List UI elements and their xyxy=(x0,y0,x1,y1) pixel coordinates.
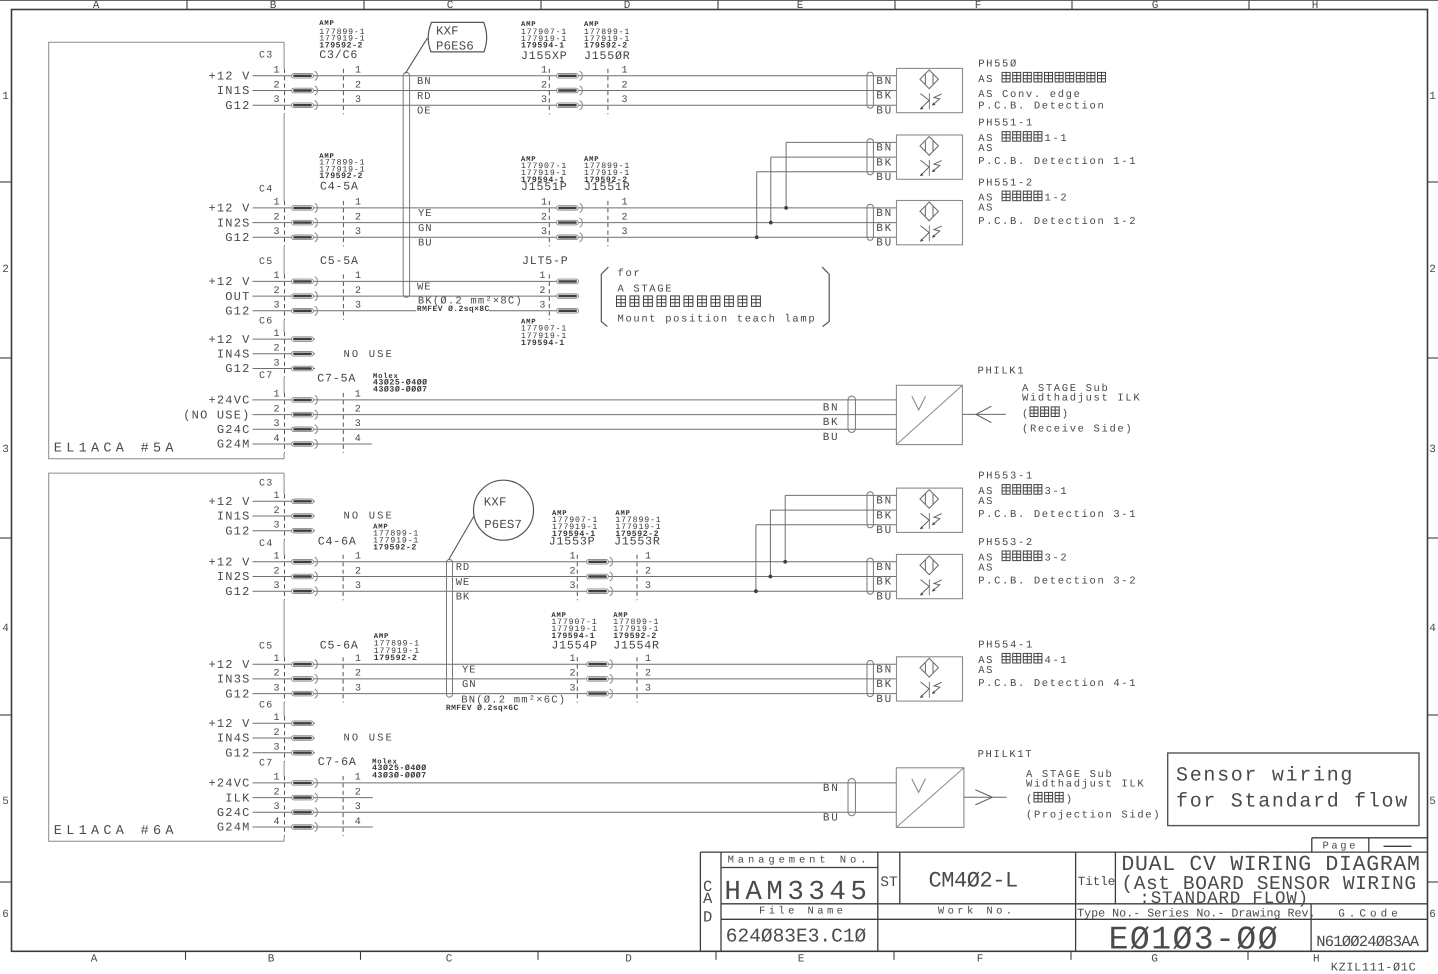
svg-text:179592-2: 179592-2 xyxy=(374,654,418,663)
C3 connector boundary xyxy=(284,494,286,539)
wire colour GN xyxy=(462,679,476,691)
svg-text:J1554R: J1554R xyxy=(613,639,660,652)
svg-text:C4: C4 xyxy=(259,539,273,550)
svg-text:3: 3 xyxy=(569,683,575,694)
svg-text:+12 V: +12 V xyxy=(208,717,250,731)
svg-text:4: 4 xyxy=(2,623,9,635)
C5 pin 2 contact xyxy=(292,292,318,301)
svg-text:3: 3 xyxy=(2,444,9,456)
svg-text:1: 1 xyxy=(273,329,279,340)
svg-text:J155ØR: J155ØR xyxy=(584,50,631,63)
mating contact pin 1 xyxy=(587,660,613,669)
cable bundle PHILK1T xyxy=(848,779,855,816)
plug-side pin numbers xyxy=(541,198,547,238)
C6 pin 1 +12 V xyxy=(208,713,279,731)
branch wire to PH551-1 xyxy=(756,172,758,238)
svg-text:BU: BU xyxy=(876,105,893,117)
connector C6 xyxy=(259,317,273,328)
svg-text:G12: G12 xyxy=(225,231,250,245)
cable-side pin numbers xyxy=(355,654,361,694)
svg-text:2: 2 xyxy=(355,404,361,415)
svg-text:1: 1 xyxy=(569,552,575,563)
svg-text:3: 3 xyxy=(273,227,279,238)
cable bundle xyxy=(867,204,873,240)
svg-text:3: 3 xyxy=(273,358,279,369)
C7 connector boundary xyxy=(284,776,286,836)
svg-text:Widthadjust ILK: Widthadjust ILK xyxy=(1026,779,1145,791)
receptacle connector boundary xyxy=(636,657,638,702)
svg-text:PH553-2: PH553-2 xyxy=(978,537,1034,549)
svg-text:1: 1 xyxy=(355,390,361,401)
C5 pin 2 IN3S xyxy=(217,669,280,687)
C5 connector boundary xyxy=(284,657,286,702)
wire C5 pin3 xyxy=(253,310,579,312)
svg-text:IN4S: IN4S xyxy=(217,732,251,746)
plug-side pin numbers xyxy=(539,271,545,311)
note bracket right xyxy=(822,267,829,327)
PH550 wire labels xyxy=(876,76,893,117)
wire colour BK xyxy=(456,592,470,604)
svg-text:4: 4 xyxy=(273,817,279,828)
svg-text:A STAGE: A STAGE xyxy=(618,283,674,295)
wire C7#6A pin4 xyxy=(253,826,373,828)
cable bundle C3/C4/C5 #5A xyxy=(403,72,409,297)
svg-text:BN: BN xyxy=(417,76,431,88)
svg-text:File Name: File Name xyxy=(759,906,846,918)
connector C5-6A xyxy=(320,639,359,652)
junction xyxy=(784,206,788,210)
PH553-2 description xyxy=(978,551,1137,588)
cable-side pin numbers xyxy=(355,390,361,445)
C6 pin 2 IN4S xyxy=(217,728,280,746)
svg-text:EL1ACA #5A: EL1ACA #5A xyxy=(54,441,178,456)
page box xyxy=(1312,838,1428,852)
svg-text:C6: C6 xyxy=(259,317,273,328)
photo sensor PH553-1 xyxy=(897,488,963,532)
C3 pin 3 contact xyxy=(292,101,318,110)
CAD label xyxy=(703,878,713,927)
wire C6#6A pin1 xyxy=(253,722,316,724)
svg-text:AS: AS xyxy=(978,74,1002,86)
svg-text:AS: AS xyxy=(978,665,994,677)
part numbers xyxy=(552,510,598,539)
label PH550 xyxy=(978,59,1018,71)
svg-text:3: 3 xyxy=(355,419,361,430)
PHILK1 wire labels xyxy=(823,403,840,444)
wire C4 pin3 xyxy=(253,236,897,238)
C4 connector boundary xyxy=(284,555,286,600)
junction xyxy=(769,221,773,225)
cable bundle xyxy=(867,661,873,697)
svg-text:(: ( xyxy=(1022,409,1030,421)
cable bundle xyxy=(867,139,873,175)
svg-text:H: H xyxy=(1312,0,1319,12)
svg-text:+12 V: +12 V xyxy=(208,70,250,84)
svg-text:OUT: OUT xyxy=(225,290,250,304)
svg-text:1: 1 xyxy=(541,66,547,77)
wire C3 pin2 xyxy=(253,90,897,92)
svg-text:2: 2 xyxy=(1429,264,1436,276)
tag leader xyxy=(405,38,427,73)
wire C3#6A pin2 xyxy=(253,515,316,517)
svg-text:PHILK1: PHILK1 xyxy=(978,365,1026,377)
svg-text:2: 2 xyxy=(355,80,361,91)
wire C4#6A pin1 xyxy=(253,561,897,563)
svg-text:2: 2 xyxy=(622,212,628,223)
svg-text:P.C.B. Detection 4-1: P.C.B. Detection 4-1 xyxy=(978,678,1137,690)
mating contact pin 1 xyxy=(556,203,582,212)
svg-text:43Ø3Ø-ØØØ7: 43Ø3Ø-ØØØ7 xyxy=(373,386,428,395)
wire colour RD xyxy=(417,91,431,103)
C4 pin 3 contact xyxy=(292,587,318,596)
svg-text:KXF: KXF xyxy=(436,25,459,39)
cable spec BK 0.2mm2x8C xyxy=(416,296,523,314)
svg-text:H: H xyxy=(1313,954,1320,966)
C7 pin 4 G24M xyxy=(217,817,280,835)
svg-text:PH551-2: PH551-2 xyxy=(978,177,1034,189)
C3 pin 1 +12 V xyxy=(208,491,279,509)
PHILK1 output arrow xyxy=(963,406,1006,422)
svg-text:2: 2 xyxy=(273,404,279,415)
mating contact pin 2 xyxy=(556,218,582,227)
svg-text:2: 2 xyxy=(539,286,545,297)
svg-text:ILK: ILK xyxy=(225,791,250,805)
svg-text:RD: RD xyxy=(456,562,470,574)
svg-text:G24M: G24M xyxy=(217,821,251,835)
svg-text:E: E xyxy=(797,0,804,12)
svg-text:BK: BK xyxy=(876,91,893,103)
svg-text:G12: G12 xyxy=(225,687,250,701)
svg-text:BU: BU xyxy=(823,812,840,824)
svg-text:for: for xyxy=(618,268,642,280)
note NO USE xyxy=(344,733,394,745)
cable-side connector boundary xyxy=(342,393,344,453)
svg-text:6: 6 xyxy=(1429,909,1436,921)
svg-text:RMFEV Ø.2sq×8C: RMFEV Ø.2sq×8C xyxy=(417,305,490,314)
connector C7 xyxy=(259,759,273,770)
connector C3 xyxy=(259,51,273,62)
C4 pin 3 contact xyxy=(292,233,318,242)
svg-text:KZIL111-Ø1C: KZIL111-Ø1C xyxy=(1331,961,1417,974)
svg-text:BN: BN xyxy=(876,143,893,155)
svg-text:C5-5A: C5-5A xyxy=(320,255,359,268)
svg-text:Work No.: Work No. xyxy=(938,906,1016,918)
svg-text:BK: BK xyxy=(876,577,893,589)
Molex part numbers xyxy=(373,372,428,395)
wire C5#6A pin1 xyxy=(253,663,897,665)
svg-text:P6ES7: P6ES7 xyxy=(484,518,522,532)
svg-text:2: 2 xyxy=(2,264,9,276)
mating contact pin 1 xyxy=(556,71,582,80)
C6 pin 2 contact xyxy=(292,736,314,741)
plug-side pin numbers xyxy=(569,552,575,592)
C4 pin 2 contact xyxy=(292,218,318,227)
label PH553-2 xyxy=(978,537,1034,549)
svg-text:1: 1 xyxy=(273,390,279,401)
PH554-1 description xyxy=(978,653,1137,690)
svg-text:BU: BU xyxy=(876,591,893,603)
svg-text:2: 2 xyxy=(273,212,279,223)
svg-text:+12 V: +12 V xyxy=(208,333,250,347)
svg-text:(: ( xyxy=(1026,794,1034,806)
g-code value xyxy=(1316,933,1420,951)
C3 pin 2 contact xyxy=(292,86,318,95)
connector J155XP xyxy=(521,50,568,63)
svg-text:1: 1 xyxy=(273,654,279,665)
svg-text:C5-6A: C5-6A xyxy=(320,639,359,652)
svg-text:3: 3 xyxy=(622,227,628,238)
C5 pin 2 contact xyxy=(292,674,318,683)
C7 pin 4 contact xyxy=(292,439,318,448)
PH550 description xyxy=(978,72,1105,112)
PH551-1 wire labels xyxy=(876,143,893,184)
ECU block EL1ACA #6A xyxy=(49,473,284,841)
cable tag KXF P6ES6 xyxy=(428,22,486,53)
note text xyxy=(617,268,817,325)
wire C7 pin1 xyxy=(253,399,897,401)
svg-text:IN2S: IN2S xyxy=(217,570,251,584)
svg-text:P6ES6: P6ES6 xyxy=(436,39,474,53)
svg-text:C6: C6 xyxy=(259,701,273,712)
svg-text:RD: RD xyxy=(417,91,431,103)
svg-text:3: 3 xyxy=(541,95,547,106)
svg-text:2: 2 xyxy=(541,80,547,91)
C5 pin 1 contact xyxy=(292,277,318,286)
C3 pin 3 G12 xyxy=(225,95,279,113)
svg-text:2: 2 xyxy=(273,506,279,517)
svg-text:BU: BU xyxy=(876,172,893,184)
cable spec BN 0.2mm2x6C xyxy=(445,694,566,713)
svg-text:5: 5 xyxy=(2,796,9,808)
svg-text:G12: G12 xyxy=(225,305,250,319)
svg-text:C7-6A: C7-6A xyxy=(318,756,357,769)
cable-side pin numbers xyxy=(355,552,361,592)
ECU block EL1ACA #5A xyxy=(49,42,284,459)
mating contact pin 1 xyxy=(587,557,613,566)
svg-text:G12: G12 xyxy=(225,362,250,376)
C6 connector boundary xyxy=(284,332,286,377)
svg-text:NO USE: NO USE xyxy=(344,511,394,523)
C7 connector boundary xyxy=(284,393,286,453)
receptacle-side pin numbers xyxy=(645,552,651,592)
svg-text:IN4S: IN4S xyxy=(217,348,251,362)
svg-text:6: 6 xyxy=(2,909,9,921)
C4 connector boundary xyxy=(284,201,286,246)
svg-text:G12: G12 xyxy=(225,746,250,760)
svg-text:4-1: 4-1 xyxy=(1045,655,1069,667)
svg-text:1: 1 xyxy=(355,198,361,209)
svg-text:3: 3 xyxy=(569,581,575,592)
svg-text:C3: C3 xyxy=(259,479,273,490)
photo sensor PH553-2 xyxy=(897,554,963,598)
svg-text:1: 1 xyxy=(355,66,361,77)
wire C4#6A pin2 xyxy=(253,576,897,578)
cable tag KXF P6ES7 xyxy=(474,480,534,540)
wire colour YE xyxy=(462,665,476,677)
svg-text:4: 4 xyxy=(355,434,361,445)
part numbers xyxy=(584,156,630,185)
svg-text:BK: BK xyxy=(456,592,470,604)
connector C5 xyxy=(259,641,273,652)
svg-text:3: 3 xyxy=(273,683,279,694)
svg-text:4: 4 xyxy=(1429,623,1436,635)
svg-text:PH553-1: PH553-1 xyxy=(978,471,1034,483)
svg-text:ST: ST xyxy=(880,875,898,891)
svg-text:B: B xyxy=(268,954,275,966)
svg-text:2: 2 xyxy=(645,669,651,680)
svg-text:3: 3 xyxy=(622,95,628,106)
svg-text:PHILK1T: PHILK1T xyxy=(978,749,1034,761)
branch wire to PH551-1 xyxy=(785,142,787,208)
wire C5#6A pin3 xyxy=(253,693,897,695)
svg-text:AS: AS xyxy=(978,202,994,214)
connector J1554R xyxy=(613,639,660,652)
svg-text:5: 5 xyxy=(1429,796,1436,808)
photo sensor PH551-2 xyxy=(897,201,963,245)
svg-text:BK: BK xyxy=(876,223,893,235)
connector C5 xyxy=(259,257,273,268)
svg-text:Title: Title xyxy=(1078,875,1116,889)
cable bundle C4/C5 #6A xyxy=(447,560,453,698)
svg-text:1-1: 1-1 xyxy=(1045,133,1069,145)
svg-text:1: 1 xyxy=(622,198,628,209)
connector C4-5A xyxy=(320,181,359,194)
receptacle connector boundary xyxy=(607,201,609,246)
C7 pin 2 contact xyxy=(292,793,318,802)
C7 pin 1 +24VC xyxy=(208,390,279,408)
wire C7#6A pin2 xyxy=(253,797,373,799)
svg-text:Mount position teach lamp: Mount position teach lamp xyxy=(618,314,817,326)
C3 pin 3 contact xyxy=(292,528,314,533)
svg-text:J1553R: J1553R xyxy=(614,535,661,548)
connector C4 xyxy=(259,539,273,550)
svg-text:BN: BN xyxy=(876,208,893,220)
mating contact pin 3 xyxy=(557,309,579,314)
svg-text:2: 2 xyxy=(273,80,279,91)
receptacle-side pin numbers xyxy=(622,66,628,106)
note bracket left xyxy=(601,267,608,327)
C3 pin 2 IN1S xyxy=(217,80,280,98)
svg-text:3: 3 xyxy=(539,301,545,312)
svg-text:P.C.B. Detection 1-2: P.C.B. Detection 1-2 xyxy=(978,216,1137,228)
svg-text:+12 V: +12 V xyxy=(208,658,250,672)
svg-text:C7: C7 xyxy=(259,759,273,770)
svg-text:YE: YE xyxy=(462,665,476,677)
svg-text:G12: G12 xyxy=(225,99,250,113)
svg-text:G: G xyxy=(1152,0,1159,12)
svg-text:J1551R: J1551R xyxy=(584,181,631,194)
receptacle-side pin numbers xyxy=(622,198,628,238)
connector J1553P xyxy=(549,535,596,548)
svg-text:NO USE: NO USE xyxy=(344,349,394,361)
svg-text:+24VC: +24VC xyxy=(208,777,250,791)
mating contact pin 3 xyxy=(587,587,613,596)
svg-text:1: 1 xyxy=(273,491,279,502)
svg-text:BK: BK xyxy=(823,417,840,429)
svg-text:1: 1 xyxy=(1429,91,1436,103)
svg-text:): ) xyxy=(1066,794,1074,806)
svg-text:1: 1 xyxy=(355,654,361,665)
svg-text:RMFEV Ø.2sq×6C: RMFEV Ø.2sq×6C xyxy=(446,704,519,713)
svg-text:P.C.B. Detection 3-2: P.C.B. Detection 3-2 xyxy=(978,576,1137,588)
svg-text:2: 2 xyxy=(273,728,279,739)
PH553-2 wire labels xyxy=(876,562,893,603)
connector C6 xyxy=(259,701,273,712)
svg-text:(Receive Side): (Receive Side) xyxy=(1022,424,1133,436)
svg-text:BN: BN xyxy=(876,76,893,88)
svg-text:BN: BN xyxy=(876,496,893,508)
svg-text:2: 2 xyxy=(569,566,575,577)
PHILK1T description xyxy=(1026,769,1161,822)
type-series-drawing header xyxy=(1077,906,1402,920)
amplifier PHILK1 xyxy=(896,385,962,444)
C6 pin 1 +12 V xyxy=(208,329,279,347)
svg-text:3: 3 xyxy=(645,683,651,694)
svg-text:43Ø3Ø-ØØØ7: 43Ø3Ø-ØØØ7 xyxy=(372,771,427,780)
connector C5-5A xyxy=(320,255,359,268)
PH551-1 description xyxy=(978,132,1137,169)
svg-text:1-2: 1-2 xyxy=(1045,193,1069,205)
svg-text:G12: G12 xyxy=(225,585,250,599)
cable bundle xyxy=(867,72,873,108)
plug connector boundary xyxy=(576,657,578,702)
C6 connector boundary xyxy=(284,716,286,761)
C7 pin 3 contact xyxy=(292,808,318,817)
svg-text:BN: BN xyxy=(823,783,840,795)
svg-text:1: 1 xyxy=(273,773,279,784)
connector C7-5A xyxy=(317,373,356,386)
svg-text:IN3S: IN3S xyxy=(217,673,251,687)
C5 pin 3 contact xyxy=(292,306,318,315)
svg-text:BU: BU xyxy=(418,238,432,250)
C4 pin 3 G12 xyxy=(225,227,279,245)
work no xyxy=(938,906,1016,918)
svg-text:D: D xyxy=(625,954,632,966)
svg-text:WE: WE xyxy=(417,282,431,294)
file name xyxy=(726,906,867,948)
part numbers xyxy=(374,633,420,663)
svg-text:J1554P: J1554P xyxy=(551,639,598,652)
connector C7-6A xyxy=(318,756,357,769)
wire C6 pin2 xyxy=(253,353,316,355)
svg-text:G24C: G24C xyxy=(217,806,251,820)
junction xyxy=(755,235,759,239)
C7 pin 2 (NO USE) xyxy=(183,404,279,422)
svg-text:1: 1 xyxy=(273,271,279,282)
C3 pin 1 +12 V xyxy=(208,66,279,84)
svg-text:2: 2 xyxy=(273,787,279,798)
C3 connector boundary xyxy=(284,69,286,114)
C6 pin 3 contact xyxy=(292,750,314,755)
svg-text:1: 1 xyxy=(355,271,361,282)
svg-text:3: 3 xyxy=(273,743,279,754)
svg-text:2: 2 xyxy=(355,566,361,577)
C5 connector boundary xyxy=(284,274,286,319)
svg-text:3: 3 xyxy=(1429,444,1436,456)
C4 pin 1 contact xyxy=(292,557,318,566)
svg-text:PH554-1: PH554-1 xyxy=(978,640,1034,652)
mating contact pin 2 xyxy=(587,674,613,683)
wire colour YE xyxy=(418,208,432,220)
plug-side pin numbers xyxy=(541,66,547,106)
C7 pin 1 contact xyxy=(292,778,318,787)
C5 pin 3 G12 xyxy=(225,301,279,319)
svg-text:4: 4 xyxy=(273,434,279,445)
svg-text:2: 2 xyxy=(355,787,361,798)
svg-text:2: 2 xyxy=(355,286,361,297)
svg-text:3: 3 xyxy=(541,227,547,238)
svg-text:D: D xyxy=(624,0,631,12)
